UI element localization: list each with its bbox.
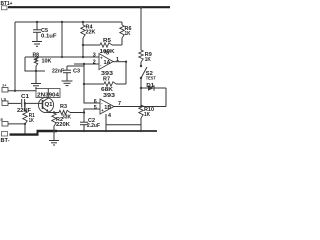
node R7 left	[83, 83, 85, 85]
svg-text:4: 4	[108, 113, 111, 119]
transistor Q1	[38, 89, 53, 113]
wire R10 return	[106, 124, 141, 126]
transistor Q1 label box	[36, 89, 60, 99]
svg-text:393: 393	[103, 93, 116, 99]
svg-text:R8: R8	[33, 53, 40, 59]
svg-text:1K: 1K	[125, 31, 132, 37]
node top bus right	[140, 6, 143, 9]
resistor R5	[83, 38, 122, 55]
op-amp IC1A	[93, 50, 126, 77]
node mic wire / left rail	[14, 90, 16, 92]
node R10 gnd	[140, 130, 142, 132]
wire B (pin2 net)	[74, 63, 99, 65]
svg-text:1: 1	[116, 57, 119, 63]
wire output1 down to R7	[125, 62, 127, 84]
capacitor C3	[52, 66, 84, 81]
node output1	[125, 61, 127, 63]
op-amp IC1B	[94, 93, 166, 131]
node wireA-R4R5	[82, 56, 84, 58]
svg-text:10K: 10K	[42, 59, 53, 65]
svg-text:R3: R3	[60, 104, 68, 110]
node R3/C2/pin5	[83, 111, 85, 113]
svg-text:22K: 22K	[86, 30, 97, 36]
resistor R6	[120, 22, 132, 45]
svg-text:1A: 1A	[104, 60, 112, 66]
svg-text:7: 7	[118, 101, 121, 107]
node pin4 gnd	[105, 130, 107, 132]
resistor R4	[81, 22, 96, 57]
wire left branch from rail corner down to mic wire	[14, 22, 16, 91]
resistor R3	[59, 104, 84, 121]
node rail-R4	[82, 21, 84, 23]
wire BT- thick	[10, 133, 39, 135]
node rail-C5	[36, 21, 38, 23]
resistor R9	[139, 50, 153, 66]
wire pin2 vertical down to pin6	[84, 64, 100, 103]
connector BT+	[1, 1, 13, 10]
svg-text:3: 3	[93, 53, 96, 59]
wire rail y22	[15, 21, 122, 23]
node C2 gnd	[83, 130, 85, 132]
svg-text:C3: C3	[73, 69, 81, 75]
svg-text:2: 2	[93, 59, 96, 65]
wire emitter	[48, 112, 59, 114]
potentiometer R8	[33, 53, 53, 84]
node wireA-riser	[61, 56, 63, 58]
svg-text:2.2uF: 2.2uF	[87, 123, 100, 129]
ground (below bus)	[49, 131, 59, 145]
svg-text:22nF: 22nF	[52, 69, 64, 75]
svg-text:R5: R5	[103, 38, 112, 44]
connector mic minus	[2, 83, 36, 93]
svg-text:D1: D1	[146, 83, 155, 89]
svg-text:1K: 1K	[29, 118, 35, 124]
connector BT-	[1, 132, 10, 144]
svg-text:1+: 1+	[2, 83, 7, 88]
wire A (pin3 net)	[25, 56, 99, 58]
node emitter	[53, 111, 55, 113]
resistor R1	[23, 103, 36, 134]
wire riser rail to wireA	[61, 22, 63, 57]
svg-text:1B: 1B	[104, 105, 111, 111]
ground (C5)	[32, 42, 42, 47]
capacitor C1	[17, 94, 43, 114]
resistor R7	[84, 76, 126, 93]
svg-text:0.1uF: 0.1uF	[41, 33, 57, 39]
node D1 branch	[140, 87, 142, 89]
wire pot bracket	[25, 57, 45, 71]
node R5-R4 riser	[82, 44, 84, 46]
node rail-riser	[61, 21, 63, 23]
resistor R10	[139, 88, 154, 131]
connector aux	[1, 117, 26, 126]
svg-text:8: 8	[106, 51, 109, 57]
switch S2	[140, 65, 156, 88]
svg-text:Q1: Q1	[45, 102, 54, 108]
node pot bracket	[35, 70, 37, 72]
wire right chain	[140, 7, 142, 50]
svg-text:1K: 1K	[144, 112, 151, 118]
diode D1	[141, 83, 166, 107]
node R1/aux	[24, 123, 26, 125]
ground (R8)	[31, 84, 41, 89]
ground (C3)	[62, 81, 73, 86]
svg-text:BT-: BT-	[1, 138, 10, 144]
svg-text:220K: 220K	[56, 122, 71, 128]
resistor R2	[52, 113, 71, 132]
svg-text:1K: 1K	[145, 57, 152, 63]
node wireB	[83, 63, 85, 65]
wire ground bus	[57, 130, 157, 132]
connector mic plus	[1, 97, 21, 106]
svg-text:TEST: TEST	[146, 75, 156, 80]
svg-text:5: 5	[94, 105, 97, 111]
node base/R1	[24, 102, 26, 104]
svg-text:C1: C1	[21, 94, 30, 100]
wire V+ top bus	[8, 6, 170, 8]
node out7 crossing	[140, 105, 142, 107]
node R2 gnd	[53, 130, 55, 132]
wire to pin5	[84, 109, 100, 113]
capacitor C2	[80, 113, 100, 132]
svg-text:33K: 33K	[62, 114, 72, 120]
capacitor C5	[33, 22, 57, 41]
